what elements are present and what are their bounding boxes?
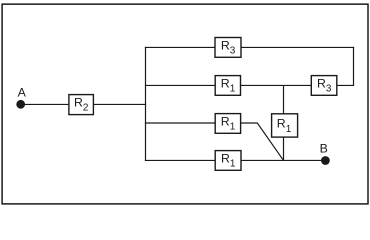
wire top branch [145, 46, 354, 48]
svg-text:A: A [18, 85, 27, 99]
wire bottom branch [145, 159, 326, 161]
resistor R1 middle vertical [272, 114, 298, 137]
resistor R1 bottom branch [215, 151, 241, 171]
resistor R3 top branch [215, 38, 241, 58]
svg-text:B: B [320, 141, 328, 155]
resistor R1 second branch [215, 76, 240, 96]
wire left vertical bus [145, 47, 147, 161]
wire right vertical corner [353, 47, 355, 86]
wire third branch with diagonal to bottom junction [145, 123, 284, 160]
wire vertical drop through middle R1 [283, 85, 285, 160]
resistor R2 [69, 95, 94, 115]
resistor R1 third branch [215, 114, 240, 134]
wire node A to left bus (passes behind R2) [21, 103, 146, 105]
node B [320, 141, 330, 165]
node A [16, 85, 26, 108]
wire second branch [145, 84, 354, 86]
resistor R3 right [311, 76, 337, 96]
